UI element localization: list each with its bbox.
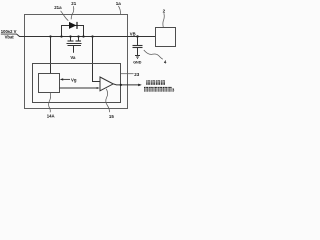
lead line for 14A bbox=[49, 92, 51, 112]
svg-text:VB: VB bbox=[130, 31, 136, 36]
wire comparator lower input bbox=[60, 87, 99, 89]
lead line for 4 bbox=[144, 50, 163, 59]
transistor Q (MOSFET 21) drain stub bbox=[70, 37, 72, 42]
lead line for 2 bbox=[163, 13, 164, 27]
wire comparator output bbox=[113, 84, 140, 85]
svg-text:14A: 14A bbox=[47, 114, 55, 119]
capacitor C4 bottom plate bbox=[133, 47, 143, 49]
Vbat fraction bar bbox=[1, 33, 17, 35]
ground bar 1 bbox=[135, 55, 140, 57]
junction dot rail F bbox=[91, 35, 93, 37]
junction dot rail C bbox=[69, 35, 71, 37]
svg-text:23: 23 bbox=[134, 72, 140, 77]
output signal label line 2 (検出結果信号) bbox=[144, 87, 172, 92]
svg-text:Va: Va bbox=[70, 55, 76, 60]
body diode D (21a) loop wires bbox=[62, 26, 84, 37]
svg-text:Vg: Vg bbox=[71, 77, 77, 82]
junction dot rail D bbox=[77, 35, 79, 37]
control block 23 outline bbox=[33, 64, 121, 103]
ground bar 2 bbox=[136, 56, 139, 58]
lead line for 21a bbox=[61, 11, 69, 21]
arrowhead into comparator bbox=[97, 87, 100, 89]
svg-text:100±2 V: 100±2 V bbox=[1, 29, 17, 34]
svg-text:Vbat: Vbat bbox=[5, 35, 15, 40]
ground bar 3 bbox=[136, 57, 139, 59]
node Vg arrow into driver box bbox=[60, 78, 63, 80]
wire rail to comparator input bbox=[93, 37, 101, 82]
battery box 2 outline bbox=[156, 28, 176, 47]
svg-text:21: 21 bbox=[71, 1, 76, 6]
svg-text:4: 4 bbox=[164, 60, 167, 65]
wire rail to driver box bbox=[50, 37, 52, 74]
wire Vg arrow shaft bbox=[63, 78, 70, 80]
svg-text:2: 2 bbox=[163, 8, 166, 13]
lead line for 21 bbox=[71, 6, 74, 19]
junction dot VB node bbox=[136, 35, 138, 37]
arrowhead output signal bbox=[138, 84, 142, 87]
lead line for 15 bbox=[106, 89, 110, 112]
junction dot output at block 23 edge bbox=[120, 84, 122, 86]
capacitor C4 top plate bbox=[133, 45, 143, 47]
svg-text:1a: 1a bbox=[116, 1, 122, 6]
capacitor C4 top lead bbox=[137, 37, 139, 46]
junction dot rail A bbox=[49, 35, 51, 37]
MOSFET contact bar right bbox=[76, 40, 82, 42]
MOSFET contact bar left bbox=[68, 40, 74, 42]
svg-text:15: 15 bbox=[109, 114, 114, 119]
MOSFET gate line bbox=[68, 45, 82, 47]
driver box 14A outline bbox=[39, 74, 60, 93]
junction dot rail B bbox=[60, 35, 62, 37]
wire gate lead bbox=[73, 46, 75, 53]
diode triangle 21a bbox=[69, 22, 76, 29]
diode cathode bar bbox=[76, 22, 77, 29]
wire main supply rail bbox=[17, 34, 156, 36]
capacitor C4 bottom lead bbox=[137, 48, 139, 56]
svg-text:21a: 21a bbox=[54, 5, 62, 10]
IC block 1a outline bbox=[25, 15, 128, 109]
MOSFET source stub bbox=[78, 37, 80, 42]
junction dot rail E bbox=[82, 35, 84, 37]
lead line for 23 bbox=[121, 73, 134, 75]
svg-text:3: 3 bbox=[172, 87, 175, 92]
output signal label line 1 (電流異常) bbox=[146, 80, 165, 85]
op-amp comparator 15 triangle bbox=[100, 77, 113, 91]
svg-text:GND: GND bbox=[133, 61, 142, 65]
MOSFET channel line bbox=[67, 43, 82, 45]
lead line for 1a bbox=[118, 6, 120, 14]
